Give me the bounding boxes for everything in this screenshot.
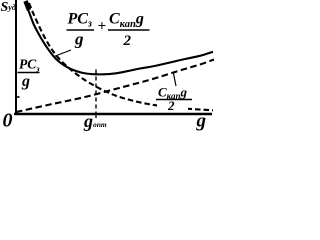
- left label bar: [18, 72, 40, 74]
- svg-text:РСз: РСз: [19, 57, 40, 74]
- right label bar: [156, 99, 192, 101]
- svg-text:Sуд: Sуд: [1, 0, 16, 15]
- x-axis: [14, 113, 212, 116]
- svg-text:РСз: РСз: [67, 11, 92, 30]
- vertical dashed line at g_опт: [95, 70, 97, 114]
- svg-text:2: 2: [123, 33, 132, 49]
- svg-text:0: 0: [3, 110, 13, 132]
- hyperbola curve PCз/g (dashed): [29, 3, 213, 110]
- svg-text:g: g: [21, 73, 30, 90]
- sum curve thick head: [26, 1, 30, 10]
- white gap behind denominator: [157, 101, 188, 112]
- sum label pointer line: [54, 50, 71, 57]
- sum label fraction 2 bar: [108, 29, 150, 31]
- rising line Cкап g/2 (dashed): [16, 60, 214, 113]
- tick below axis at g_опт: [95, 115, 97, 118]
- svg-text:g: g: [74, 30, 84, 49]
- sum curve (solid) PCз/g + Cкап g/2: [25, 2, 213, 74]
- y-axis tick: [16, 96, 20, 98]
- right label pointer line: [174, 74, 177, 87]
- svg-text:2: 2: [167, 98, 175, 113]
- svg-text:+: +: [98, 19, 107, 35]
- sum label fraction 1 bar: [67, 29, 95, 31]
- y-axis: [15, 0, 17, 115]
- svg-text:g: g: [196, 111, 207, 132]
- svg-text:Скапg: Скапg: [109, 11, 144, 31]
